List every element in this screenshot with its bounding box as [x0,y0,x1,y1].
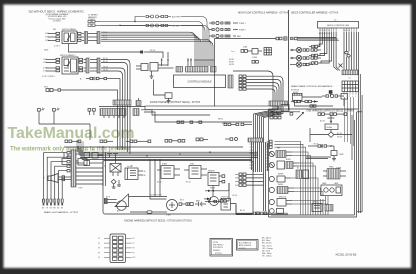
alternator label [117,210,120,213]
svg-text:OR 18: OR 18 [313,144,318,146]
harness trunk long box [145,106,278,110]
junction tees above box [107,154,118,164]
engine box outline [103,161,253,215]
circle row 6 [269,209,283,214]
module right bus wire 6 [233,71,273,101]
engine misc labels [106,166,245,217]
cab right bundle [359,32,363,213]
fuse stub labels left [98,238,100,259]
ground G1 [150,71,154,78]
svg-text:TakeManual.com: TakeManual.com [8,125,135,142]
trunk connector strip [248,138,263,142]
glow controller box [125,168,143,180]
lamp circle row 2 [290,55,321,60]
lamp circle row 1 [290,47,321,52]
cab right border [356,112,358,217]
junction dot run1 [134,21,135,22]
starter motor M1 [167,200,178,211]
jumper arrow [297,112,304,120]
rear light pin 4 [54,199,56,205]
bus line 1 [78,151,258,153]
glow labels [127,166,145,177]
wire across to grid [302,96,322,98]
blower plug [277,161,299,169]
right bundle elbow bottom [357,211,362,213]
long wire y147 [64,146,243,148]
svg-text:Rev: Rev [57,108,60,110]
cab label small [336,168,342,170]
module right bar [228,75,233,88]
trunk feed wire 6 [264,106,284,142]
note box 1 text [213,242,223,255]
J2 right pins [79,58,83,72]
filter single connector [136,98,141,106]
wire down from left cluster [154,80,166,96]
controller pin ticks [320,28,357,32]
below-band pins mid [88,109,95,116]
wires from bar down-left 5 [58,171,67,199]
svg-text:677XXX: 677XXX [53,21,61,23]
trunk feed wire 4 [260,106,280,142]
J1 connector bar A [85,32,88,44]
cab left tick pins [267,142,270,148]
svg-text:PUMP 2: PUMP 2 [239,29,246,31]
svg-text:BK 18: BK 18 [240,210,245,212]
arrow comp left of box [205,183,229,192]
module right block pins [239,75,246,90]
branch wire [167,52,169,58]
cab resistor row [308,144,334,147]
stub pins row 3 [309,62,318,65]
filter band wire left [99,106,145,108]
wire to module pins [148,52,163,58]
header: REAR FRAME CONTROLLER HARNESS [291,85,334,91]
rear light connector bar [71,150,76,187]
module right bus wire 2 [246,79,281,101]
junction dot run2 [119,25,120,26]
module connector strip right [211,67,217,73]
svg-text:B+: B+ [80,78,82,80]
svg-text:C1: C1 [349,78,351,80]
mid cluster labels [231,46,258,59]
grid down-wires to cab [345,97,354,146]
fuse F4 [146,24,161,27]
bus connector bar CB1 [269,101,288,106]
K4 label [208,169,215,172]
run 2 wire to drop [181,26,209,59]
J1 below label [44,46,60,52]
small parts below K5 [111,179,121,188]
header left stubs [235,174,239,185]
module right bus wire 1 [246,76,283,101]
svg-text:FUEL SOL: FUEL SOL [222,197,230,199]
mid cluster box [252,49,262,55]
module top pins row [161,59,214,67]
lower-left comps under watermark [62,152,87,165]
lamp circle row 3 [290,62,313,67]
rear light pin 1 [42,199,44,205]
stub pins row 2 [309,54,318,57]
pin header block [239,173,264,186]
K3 bottom wire [295,103,334,106]
svg-text:WH 18: WH 18 [210,188,215,190]
svg-text:MC2511 (30-30-08): MC2511 (30-30-08) [336,254,357,257]
svg-text:GND: GND [44,50,49,52]
controller pin number labels [319,30,350,35]
svg-text:87: 87 [131,166,133,168]
J2 left pin stubs [46,58,60,72]
battery symbol [195,202,206,207]
svg-text:86 OR: 86 OR [229,64,235,66]
cab left border [268,109,270,217]
temp sensor T1 [331,151,337,161]
M1 pins right [179,203,193,206]
single pin [290,113,293,116]
pin a label [42,108,45,110]
bus wire a [100,22,203,59]
bar left pins [67,152,70,172]
right cab plug [323,169,346,180]
lamp pair labels [322,182,338,185]
fuse box FB1 [110,234,126,263]
module right bus wire 5 [246,89,275,101]
row 3 label [237,35,241,38]
svg-text:30 RD: 30 RD [229,59,235,61]
comp pair x196 y139 [196,138,208,141]
wire 6 from horn [61,181,63,199]
svg-text:BU - Blue: BU - Blue [262,240,270,242]
circle row 4 [269,187,294,194]
rear light pin labels [42,208,63,210]
svg-text:CT SERIES: CT SERIES [88,15,98,17]
M2 wire to bundle [61,90,118,100]
note box 2 text [239,242,252,250]
trunk feed wire 3 [258,106,278,142]
J2 bar wires [84,60,98,72]
stub pins row 1 [309,45,318,48]
svg-text:SW 2: SW 2 [44,86,48,88]
cab staircase wires [274,142,328,216]
filter comps on run [177,121,202,123]
washer pump M2 [46,89,61,92]
temp sender B1 [165,93,172,101]
vertical pair right of ladder [103,147,106,186]
module left cluster box B [150,63,158,72]
svg-text:BU 18: BU 18 [320,121,325,123]
filter comps row2 [224,123,252,125]
row 2 label [239,29,246,31]
section divider line [288,10,290,110]
ladder comps right of bar [76,153,103,166]
wire from bus down to starter [150,197,167,200]
bus wire f [101,38,201,58]
svg-text:86: 86 [144,175,146,177]
connector pins on run 1 [161,15,171,17]
fuse F6 [347,55,350,57]
right bundle wire 1 [343,32,345,70]
trunk feed wire 2 [256,106,276,142]
filter comp labels [218,119,227,126]
rear inline comps [322,94,344,97]
K4 down wire with dot [212,186,214,197]
trunk left ticks [250,144,254,168]
svg-text:1 ea: 1 ea [231,51,234,53]
left bundle wire 5 [318,32,329,63]
svg-text:GN 18: GN 18 [337,137,342,139]
bus line 4 [80,157,258,159]
wire colour legend [262,238,273,258]
bottom bus pins [253,212,267,215]
bus wire d [101,34,197,58]
label on bottom wire [150,50,155,52]
relay K2 label [162,163,167,166]
svg-text:OR 18: OR 18 [232,195,237,197]
ladder mid labels [78,150,95,190]
section frame wire [215,39,277,107]
left bundle wire 8 [336,32,340,71]
wires from bar down-left 3 [51,162,67,199]
J1 bottom wire [69,44,141,53]
fuel solenoid Y1 [220,197,222,199]
svg-text:RD - Red: RD - Red [262,251,270,253]
junction dots on bus [146,151,211,156]
svg-text:YE - Yellow: YE - Yellow [262,256,272,258]
svg-text:CONTROLS MODULE: CONTROLS MODULE [187,81,212,84]
comp cluster x130 y140 [126,140,151,143]
controls module box U1 [174,75,226,88]
pin b label [57,108,60,110]
left bundle wire 6 [321,32,332,63]
bus line 5 [82,158,252,160]
right bundle wire 6 [356,32,358,70]
fuse F3 [146,15,161,18]
module connector strip small [176,67,183,73]
J2 below label [42,76,55,78]
J2 bar side labels [103,58,108,71]
relay K3 rear frame [293,94,303,104]
comp cluster x65 y141 [65,140,81,143]
svg-text:HIGH FLOW CONTROLS HARNESS - 6: HIGH FLOW CONTROLS HARNESS - 677XXX [238,12,289,15]
diode D2 [329,90,333,96]
diode arrow top right [204,197,211,200]
interconnect bus 3 lines [297,38,339,41]
cross junction symbol [328,115,335,124]
svg-text:WIPER: WIPER [278,174,284,176]
wire joining pins a+b [39,124,90,140]
left bundle wire 1 [318,32,320,47]
Y2 left wire with arrow [205,200,221,202]
rear light pin 3 [50,199,52,205]
svg-text:30: 30 [144,171,146,173]
J2 right wire 2 to bundle [101,63,128,101]
svg-text:677XXX: 677XXX [215,253,222,255]
filter wire right run 1 [141,110,210,115]
svg-text:SEICS CONTROLLER HARNESS - 677: SEICS CONTROLLER HARNESS - 677XXX [291,12,339,15]
trunk feed wire 1 [254,106,274,142]
bus line 2 [78,153,258,155]
left bundle wire 3 [318,32,325,56]
P1 pins [220,183,229,202]
svg-text:CONN: CONN [252,57,258,59]
valve row 1 [209,21,238,24]
alternator left wires [104,198,117,203]
cab misc labels [277,121,345,204]
J1 left pin stubs [48,32,60,41]
svg-text:GLOW PLUGS: GLOW PLUGS [150,195,162,197]
filter wire right run 2 [144,112,252,122]
row 1 label [239,23,246,25]
lamp pair box [321,185,342,196]
horn label [43,178,45,180]
module left wires [136,65,174,69]
J2 right wire 4 to bundle [101,71,123,100]
right bundle wire 4 [351,32,353,70]
bus wire g [101,39,211,58]
wires from bar down-left 1 [44,153,68,199]
right bundle wire 2 [346,32,348,70]
svg-text:NOTE:: NOTE: [213,242,219,244]
module pin labels above [229,59,235,66]
left bundle wire 4 [320,32,327,56]
valve diamond [310,132,352,138]
bus wire b [100,25,205,58]
resistor row label [80,78,82,80]
trunk right ticks [266,143,270,170]
Y2 label [222,197,230,199]
cab wires two [306,157,331,159]
left bundle continuation below band [118,105,131,154]
connector pins on run 2 [161,24,171,26]
comp cluster x100 y141 [100,140,113,143]
left bundle wire 2 [319,32,322,47]
svg-text:BK - Black: BK - Black [262,238,271,240]
below-band strip wide [100,109,126,119]
K5 label [104,166,106,168]
module left cluster box A [141,64,148,71]
svg-text:RD 12: RD 12 [186,182,191,184]
cab divider top line [269,109,363,112]
T1 top wire [333,146,335,151]
comp box at trunk right end [281,105,289,112]
C1 label [349,78,351,80]
svg-text:BU 18: BU 18 [337,133,342,135]
J1 bar A wires [82,34,97,41]
note label block right of title [88,15,98,21]
svg-text:SEICS CONTROLLER: SEICS CONTROLLER [327,25,350,27]
wire run 2 [120,25,145,27]
filter strip bar left [113,100,131,105]
run 1 wire to drop [181,17,207,59]
fan plug [276,151,292,158]
J1 right pins [78,32,82,41]
comp row above cab divider [291,100,318,102]
right bundle wire 5 [353,32,355,70]
bus line 3 [80,155,258,157]
mid cluster pinpair [241,50,252,53]
fuse box left stubs [104,238,110,257]
sub connector pair near title [88,20,100,26]
relay block J2 [62,57,78,74]
fan circle M3 [269,151,274,156]
lower wire 2 with fuse [130,211,167,213]
bus elbow from left column [78,146,82,159]
below-band pin a [38,109,45,125]
splice X mark [339,64,343,68]
inline resistor row [86,77,120,100]
wire run 1 [135,17,145,22]
pressure sender P1 [210,197,219,206]
svg-text:2 OF 2 CONN 1: 2 OF 2 CONN 1 [42,76,55,78]
relay K2 [157,166,180,179]
Y2 right wire to bottom bus [231,204,289,214]
diag grid connector [264,48,272,56]
mid cab connector pair [296,170,309,179]
svg-text:PUMP 1: PUMP 1 [239,23,246,25]
J2 label [60,54,76,57]
svg-text:WIRING: WIRING [213,250,220,252]
J2 connector bar A [86,58,89,73]
valve row 3 [209,34,236,37]
J1 label [53,28,76,31]
left bundle wire 7 [334,32,338,71]
relay block J1 [62,31,77,44]
starter relay K5 (box with X) [110,164,121,177]
svg-text:KEY SW: KEY SW [172,25,179,27]
lower wire in box [129,196,168,198]
blower circle M4 [269,162,274,167]
cab inner box [310,115,352,160]
below-band single connector [133,109,139,116]
wires from bar down-left 4 [55,166,67,199]
SEICS controller box U2 [318,22,359,29]
svg-text:1 OF 2: 1 OF 2 [54,46,60,48]
row comps right of arrow [318,113,347,116]
circle row 5 [269,199,292,207]
svg-text:Rev: Rev [42,108,45,110]
valve row 2 [209,28,238,31]
svg-text:BLWR: BLWR [286,159,291,161]
horn wires [58,176,71,181]
note box 2 [237,240,259,251]
inline pins on bottom wire [310,105,316,107]
cab under-divider pin grid [270,113,281,119]
cab relay label [327,126,333,129]
svg-text:677XXX: 677XXX [291,89,300,91]
J1 left stub labels [45,33,50,42]
comp cluster x165 y140 [165,140,185,143]
fuse F5 [345,52,348,54]
svg-text:WH 14: WH 14 [218,119,223,121]
circle row 3 [269,176,291,182]
bus wire h [101,41,213,58]
M2 label [44,86,48,88]
cab bottom border [269,120,357,217]
rear comp box right [341,94,348,107]
rear light pin 6 [61,199,63,205]
note box 1 [210,239,233,257]
module connector strip wide [186,67,209,73]
J1 connector bar B [97,32,100,44]
bottom bus line 2 [236,205,288,215]
wire pack above bus [77,140,83,152]
title block text [28,10,83,23]
relay box cab [325,124,338,132]
trunk feed wire 5 [262,106,282,142]
aux pin pair [252,61,258,64]
svg-text:RD 10: RD 10 [157,182,162,184]
K3 label [293,91,299,94]
fuse stub labels right [133,238,136,259]
